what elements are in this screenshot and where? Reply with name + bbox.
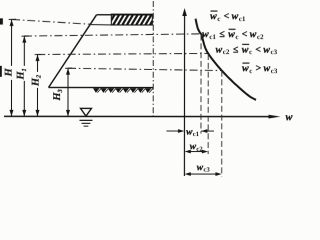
svg-text:w: w [285,112,293,123]
svg-text:w: w [232,11,239,22]
svg-text:w: w [242,63,249,74]
svg-text:c2: c2 [196,146,203,153]
svg-text:w: w [242,44,249,55]
svg-text:w: w [263,44,270,55]
svg-text:w: w [216,44,223,55]
svg-text:c3: c3 [203,167,210,174]
svg-text:≤: ≤ [233,44,239,55]
svg-text:c: c [235,33,238,41]
svg-text:>: > [256,63,262,74]
svg-text:c2: c2 [257,33,264,41]
svg-text:c: c [249,48,252,56]
svg-text:c1: c1 [209,33,216,41]
svg-text:c1: c1 [193,131,199,138]
svg-text:w: w [202,29,209,40]
svg-text:≤: ≤ [219,29,225,40]
svg-text:c3: c3 [271,67,278,75]
svg-text:<: < [224,11,230,22]
svg-text:c: c [249,67,252,75]
svg-text:c: c [217,15,220,23]
svg-text:w: w [228,29,235,40]
svg-text:c3: c3 [271,48,278,56]
svg-text:<: < [242,29,248,40]
svg-text:w: w [264,63,271,74]
svg-text:c1: c1 [239,15,246,23]
svg-text:w: w [250,29,257,40]
svg-text:<: < [255,44,261,55]
svg-text:w: w [210,11,217,22]
svg-text:c2: c2 [223,48,230,56]
svg-text:H: H [4,67,15,77]
